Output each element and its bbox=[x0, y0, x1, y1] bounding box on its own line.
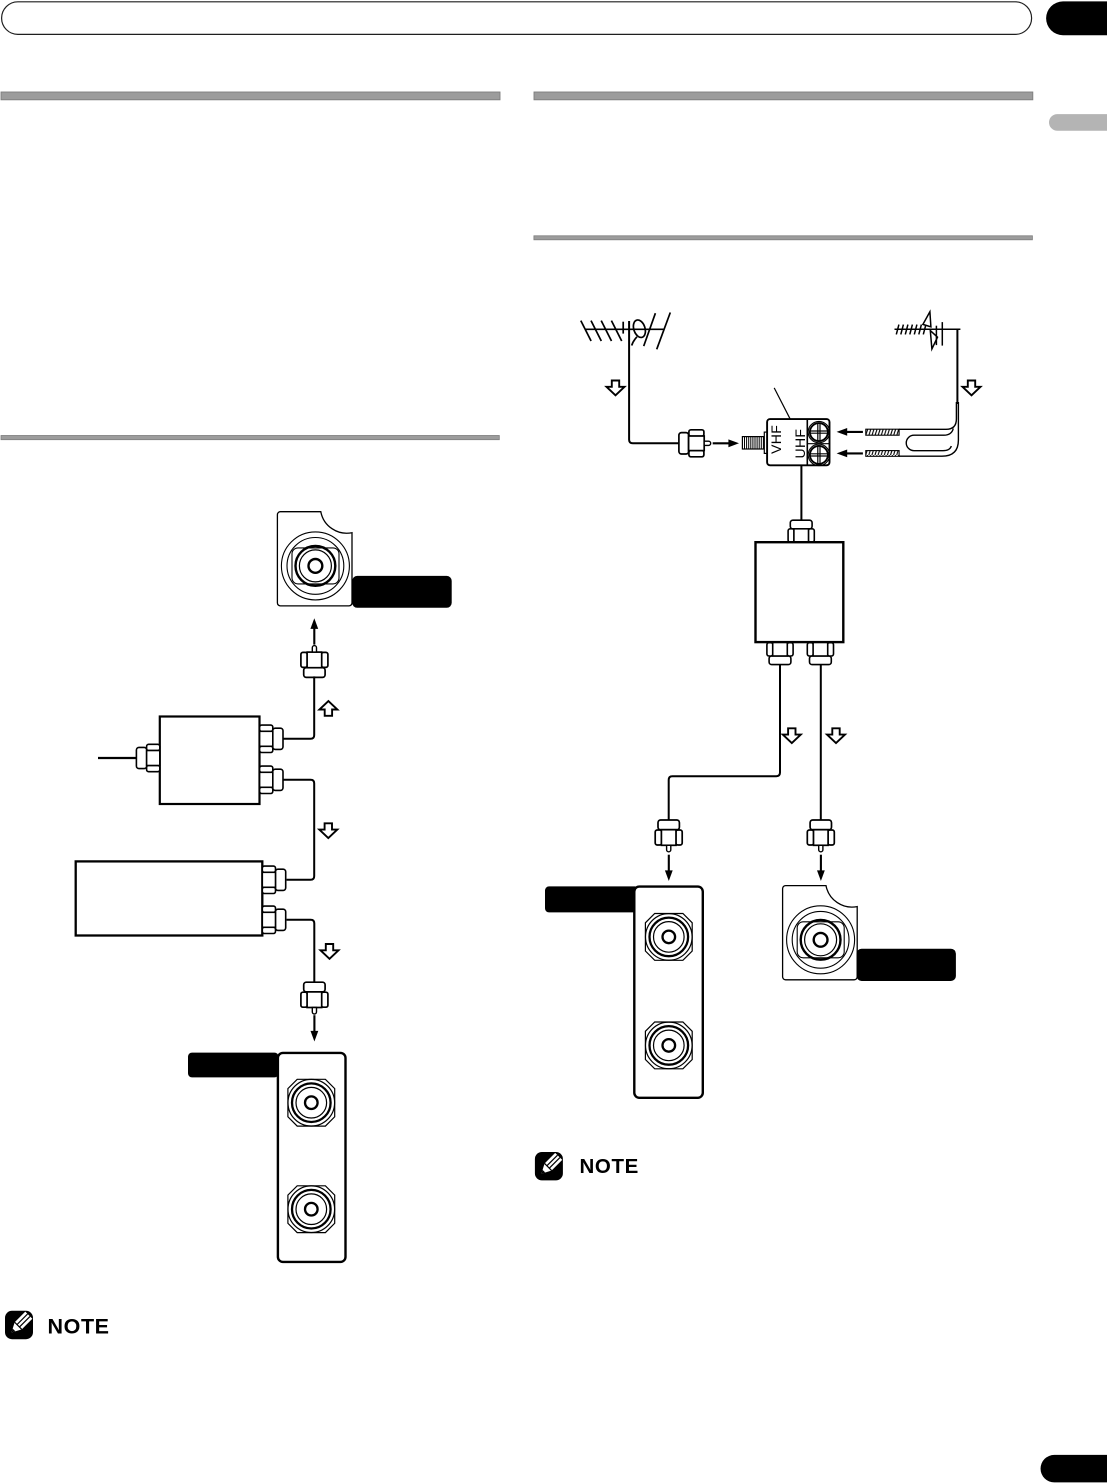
UHF antenna icon bbox=[895, 312, 961, 349]
TV antenna panel bbox=[278, 1053, 346, 1262]
solid arrow down to TV bbox=[311, 1015, 319, 1041]
VCR box bbox=[76, 861, 263, 935]
VCR connector in bbox=[262, 866, 285, 893]
TV jack 2 bbox=[288, 1186, 335, 1233]
gray heading bar left 1 bbox=[1, 92, 500, 100]
gray heading bar right 1 bbox=[534, 92, 1033, 100]
open arrow down right bbox=[827, 728, 845, 743]
combiner divider bbox=[806, 420, 808, 466]
splitter input connector bbox=[136, 744, 159, 771]
svg-text:NOTE: NOTE bbox=[580, 1155, 639, 1178]
TV jack 1 bbox=[288, 1079, 335, 1126]
combiner threaded stub bbox=[742, 432, 767, 453]
bottom-right black tab bbox=[1041, 1455, 1107, 1483]
screw terminal 2 bbox=[808, 444, 829, 465]
open arrow down 1 bbox=[319, 823, 337, 838]
wire splitter out2: straight down bbox=[820, 665, 822, 820]
top-right black tab bbox=[1046, 1, 1107, 35]
wire: VCR OUT right then down to plug bbox=[287, 920, 315, 982]
NOTE icon right bbox=[535, 1152, 563, 1180]
svg-text:NOTE: NOTE bbox=[48, 1314, 110, 1338]
wire from UHF antenna down bbox=[956, 329, 958, 404]
callout line to combiner bbox=[774, 388, 790, 419]
twin-lead cable bbox=[899, 402, 958, 456]
splitter out connector left bbox=[767, 643, 793, 665]
wire: splitter OUT2 right then down to VCR IN bbox=[283, 780, 314, 880]
NOTE icon left bbox=[5, 1311, 33, 1339]
svg-text:VHF: VHF bbox=[768, 425, 784, 454]
open arrow down left bbox=[783, 728, 801, 743]
splitter box bbox=[160, 717, 260, 805]
black label TV (left) bbox=[188, 1053, 279, 1078]
gray chapter tab right bbox=[1049, 114, 1107, 131]
TV antenna panel right bbox=[634, 887, 703, 1098]
screw terminal 1 bbox=[808, 421, 829, 442]
VCR connector out bbox=[262, 906, 285, 933]
gray heading bar left 2 bbox=[1, 436, 499, 440]
header outline stadium bbox=[2, 2, 1032, 35]
F-plug pin-down above TV bbox=[301, 982, 328, 1014]
wire splitter out1: down, left, down bbox=[669, 665, 780, 820]
open arrow down 2 bbox=[321, 944, 339, 959]
wire from VHF antenna down then right to plug bbox=[629, 321, 679, 443]
gray heading bar right 2 bbox=[534, 236, 1033, 240]
combiner box bbox=[767, 419, 829, 465]
TV jack 1 right bbox=[645, 914, 692, 961]
black label B (wall outlet right) bbox=[857, 949, 956, 981]
splitter out connector right bbox=[807, 643, 833, 665]
solid arrow left upper bbox=[837, 428, 863, 436]
solid arrow up to outlet bbox=[310, 618, 318, 644]
wall outlet icon B bbox=[783, 886, 858, 980]
F-plug above outlet right col bbox=[807, 820, 834, 852]
open arrow up bbox=[319, 701, 337, 716]
wire: plug down, turn left into splitter OUT1 bbox=[283, 676, 314, 738]
F-plug pin-up bbox=[301, 646, 328, 678]
wall outlet icon A bbox=[277, 512, 352, 606]
wire into splitter input bbox=[98, 757, 137, 759]
solid arrow down to TV right col bbox=[665, 855, 673, 881]
splitter output connector 2 bbox=[260, 766, 283, 793]
splitter top plug bbox=[788, 520, 814, 542]
TV jack 2 right bbox=[645, 1022, 692, 1069]
open arrow down (UHF lead) bbox=[963, 381, 981, 396]
splitter output connector 1 bbox=[260, 725, 283, 752]
VHF antenna icon bbox=[581, 313, 671, 350]
solid arrow down to outlet right col bbox=[817, 855, 825, 881]
svg-text:UHF: UHF bbox=[792, 429, 808, 459]
twin-lead hatched end lower bbox=[866, 451, 899, 457]
black label A (wall outlet) bbox=[352, 576, 452, 608]
twin-lead hatched end upper bbox=[866, 429, 899, 435]
splitter box right bbox=[756, 542, 844, 642]
solid arrow left lower bbox=[837, 450, 863, 458]
F-plug horizontal pin-right bbox=[679, 430, 711, 457]
solid arrow right into combiner bbox=[713, 439, 739, 447]
wire combiner to splitter bbox=[800, 465, 802, 520]
black label TV (right) bbox=[545, 886, 639, 912]
open arrow down (VHF lead) bbox=[607, 381, 625, 396]
F-plug above TV right col bbox=[655, 820, 682, 852]
